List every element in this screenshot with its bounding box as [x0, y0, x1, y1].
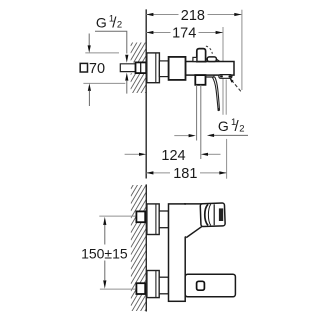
diverter cap — [197, 49, 206, 62]
svg-text:70: 70 — [89, 61, 105, 77]
swing arc (dashed) — [206, 46, 213, 54]
outlet pipe lines — [196, 85, 198, 141]
top union (front view) — [136, 211, 145, 222]
dimension 150 +/- 15 — [99, 215, 136, 217]
svg-text:124: 124 — [161, 148, 185, 164]
dimension square 70 — [80, 63, 87, 72]
spout (front view) — [185, 274, 235, 297]
dimension 218 — [146, 14, 241, 16]
svg-text:G: G — [96, 14, 107, 30]
bottom union (front view) — [136, 283, 145, 294]
extension line 181 upper — [225, 80, 227, 115]
shower outlet boss — [195, 75, 205, 85]
dimension 124 — [125, 153, 140, 155]
union nut — [169, 57, 186, 80]
escutcheon flange (side view) — [147, 53, 160, 83]
arm underside — [184, 205, 203, 237]
extension line 218 — [241, 10, 243, 90]
lever handle (front view) — [200, 203, 225, 227]
diverter knob — [207, 57, 216, 62]
wall hatching (side view) — [131, 20, 147, 126]
mixer body (front view) — [169, 204, 186, 301]
mixer body (side view) — [186, 62, 234, 76]
lever blade (hanging) — [206, 75, 214, 77]
wall hatching (front view) — [131, 163, 147, 325]
svg-text:G: G — [218, 118, 229, 134]
leader G1/2 bottom — [214, 134, 248, 136]
top flange (front view) — [147, 204, 159, 235]
svg-text:150±15: 150±15 — [81, 245, 128, 261]
aerator — [219, 75, 232, 79]
bottom stub (front view) — [159, 277, 168, 294]
inlet union block — [136, 62, 147, 73]
arrow pointing at outlet pipe — [174, 135, 189, 137]
svg-text:2: 2 — [117, 20, 122, 31]
svg-text:218: 218 — [181, 8, 205, 24]
inlet pipe (side view) — [120, 64, 136, 72]
spout square hole — [197, 281, 205, 290]
dimension 181 — [146, 172, 170, 174]
svg-text:181: 181 — [173, 166, 197, 182]
leader G1/2 top — [95, 31, 127, 53]
dimension 174 — [146, 32, 223, 34]
connector stub — [159, 61, 168, 77]
extension line 174 — [222, 27, 224, 115]
wall face line (side view) — [145, 9, 147, 178]
wall face line (front view) — [145, 184, 147, 311]
top stub (front view) — [159, 211, 168, 228]
svg-text:2: 2 — [239, 123, 244, 134]
leader to aerator (dashed diagonal) — [231, 80, 241, 91]
bottom flange (front view) — [147, 271, 159, 298]
svg-text:174: 174 — [172, 25, 196, 41]
